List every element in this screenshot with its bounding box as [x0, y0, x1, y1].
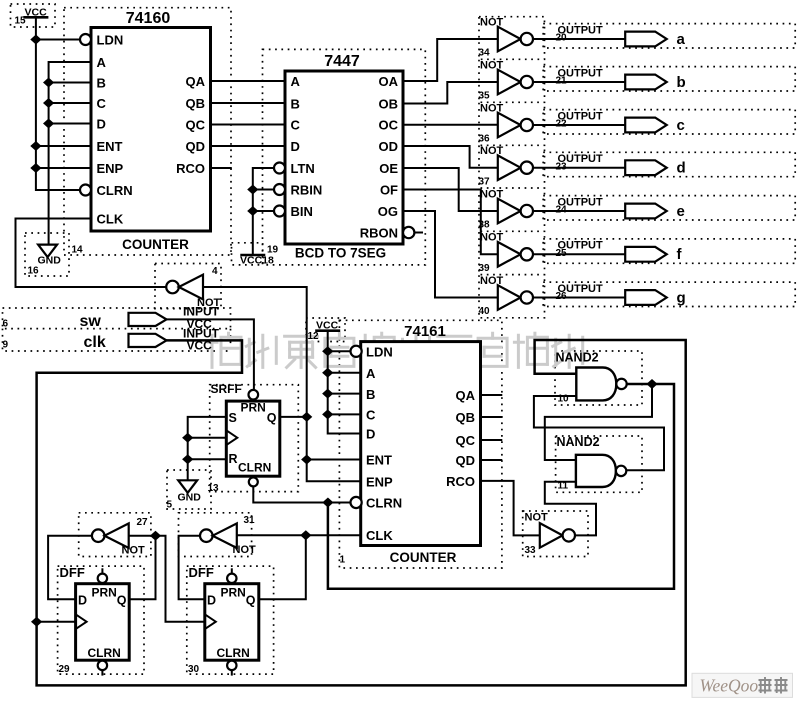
svg-text:NOT: NOT	[480, 188, 504, 200]
junction GND5 rail / clock	[182, 433, 193, 443]
junction VCC12 / C	[322, 409, 333, 419]
svg-text:10: 10	[558, 394, 570, 405]
svg-text:ENT: ENT	[366, 453, 392, 468]
wire VCC18 rail (LTN/RBIN/BIN)	[253, 168, 274, 255]
svg-text:12: 12	[308, 331, 320, 342]
junction VCC18 rail / BIN	[247, 206, 258, 216]
svg-text:A: A	[366, 366, 376, 381]
wire NOT35 output to port b	[533, 81, 625, 83]
wire NOT31 input to CLK 74161	[236, 534, 363, 536]
svg-text:QB: QB	[186, 96, 206, 111]
wire OD 7447 to NOT37	[403, 146, 498, 168]
svg-text:6: 6	[3, 319, 9, 330]
svg-text:VCC: VCC	[316, 319, 339, 331]
wire RCO 74161 to NOT33 input	[481, 481, 540, 536]
wire NAND11 output feedback to NAND10 input B	[534, 396, 664, 470]
svg-text:40: 40	[479, 306, 491, 317]
svg-text:26: 26	[556, 291, 568, 302]
junction GND5 rail / R	[182, 454, 193, 464]
svg-text:COUNTER: COUNTER	[390, 550, 457, 565]
input port clk (9)	[3, 327, 220, 353]
svg-text:D: D	[207, 594, 216, 608]
svg-text:SRFF: SRFF	[211, 382, 242, 396]
wire GND5 rail to SRFF R	[188, 458, 227, 460]
svg-text:S: S	[229, 411, 237, 425]
wire NOT38 output to port e	[533, 210, 625, 212]
junction VCC12 / B	[322, 389, 333, 399]
power VCC 15	[15, 6, 49, 26]
svg-text:39: 39	[479, 263, 491, 274]
inverter NOT 35	[479, 59, 534, 101]
svg-text:DFF: DFF	[60, 565, 85, 580]
svg-text:CLK: CLK	[97, 212, 124, 227]
wire VCC12 rail to D 74161	[328, 331, 361, 434]
svg-text:g: g	[677, 289, 686, 306]
svg-text:RCO: RCO	[176, 161, 205, 176]
svg-text:21: 21	[556, 76, 568, 87]
dotted box around DFF 29	[58, 566, 144, 674]
bubble CLRN 74160	[80, 185, 91, 196]
dotted box around inverter NOT 31	[179, 513, 252, 557]
svg-text:CLK: CLK	[366, 528, 393, 543]
flip-flop DFF 29	[59, 565, 130, 675]
svg-text:R: R	[229, 452, 238, 466]
dotted box around inverter NOT 39	[479, 232, 545, 275]
wire NOT39 output to port f	[533, 253, 625, 255]
wire QD 74161 stub	[481, 459, 503, 461]
wire QA 74161 stub	[481, 394, 503, 396]
dotted box around decoder 7447	[263, 49, 426, 265]
wire NOT27 output to DFF29 D	[48, 536, 92, 600]
svg-text:PRN: PRN	[221, 586, 246, 600]
svg-text:OE: OE	[379, 161, 398, 176]
wire rail to RBIN 7447	[253, 189, 274, 191]
svg-text:NOT: NOT	[480, 16, 504, 28]
stub DFF30 CLRN	[231, 670, 233, 676]
svg-text:VCC: VCC	[187, 339, 213, 353]
svg-text:LDN: LDN	[97, 33, 124, 48]
svg-text:QC: QC	[456, 433, 476, 448]
wire VCC15 to LDN 74160	[36, 39, 80, 41]
junction CLK row / DFF30 Q	[300, 530, 311, 540]
wire VCC15 rail to LDN/ENT/ENP/CLRN of 74160	[36, 17, 80, 190]
svg-text:C: C	[97, 96, 107, 111]
svg-text:A: A	[97, 55, 107, 70]
svg-text:CLRN: CLRN	[217, 646, 250, 660]
power VCC 12	[308, 319, 341, 342]
stub DFF30 PRN	[231, 568, 233, 574]
svg-text:B: B	[366, 387, 375, 402]
svg-text:LTN: LTN	[291, 161, 315, 176]
svg-text:27: 27	[137, 517, 149, 528]
wire NOT4 net to ENT 74161	[307, 459, 363, 461]
ground GND 16	[28, 245, 62, 277]
bubble RBIN 7447	[274, 184, 285, 195]
dotted box around output row f	[543, 239, 795, 263]
svg-text:OG: OG	[378, 204, 398, 219]
svg-text:7447: 7447	[324, 53, 360, 70]
wire OF 7447 to NOT39	[403, 190, 498, 255]
svg-text:14: 14	[72, 245, 84, 256]
junction NOT4 net / SRFF Q	[301, 412, 312, 422]
wire clk input big loop to NAND10 input A	[37, 340, 686, 685]
output port a (20)	[556, 24, 686, 47]
svg-text:BCD TO 7SEG: BCD TO 7SEG	[295, 246, 386, 261]
inverter NOT 33	[525, 512, 576, 557]
dotted box around output row a	[543, 24, 795, 48]
dotted box around NAND2 11	[556, 436, 642, 492]
wire VCC15 to ENT 74160	[36, 145, 91, 147]
wire SRFF CLRN to 74161 CLRN	[253, 486, 350, 502]
inverter NOT 36	[479, 102, 534, 144]
watermark WeeQoo logo	[692, 673, 793, 697]
svg-text:ENP: ENP	[366, 475, 393, 490]
svg-text:Q: Q	[117, 594, 127, 608]
dotted box around VCC 12	[306, 318, 345, 342]
bubble CLRN DFF30	[227, 661, 236, 670]
svg-text:24: 24	[556, 205, 568, 216]
svg-text:QA: QA	[456, 388, 476, 403]
svg-text:CLRN: CLRN	[366, 496, 402, 511]
output port g (26)	[556, 283, 686, 306]
junction at ABCD rail / D	[43, 119, 54, 129]
wire rail to BIN 7447	[253, 210, 274, 212]
svg-text:NOT: NOT	[480, 59, 504, 71]
counter 74160	[91, 10, 211, 252]
wire RBON 7447 stub	[414, 232, 423, 234]
bubble CLRN SRFF	[249, 477, 258, 486]
svg-text:OC: OC	[379, 118, 399, 133]
dotted box around inverter NOT 37	[479, 145, 545, 188]
output port b (21)	[556, 67, 686, 90]
junction clk loop / DFF29 clock	[31, 617, 42, 627]
svg-text:GND: GND	[178, 492, 202, 504]
svg-text:34: 34	[479, 48, 491, 59]
svg-text:B: B	[291, 97, 300, 112]
junction at VCC line / ENT	[30, 141, 41, 151]
svg-text:clk: clk	[84, 334, 106, 351]
svg-text:LDN: LDN	[366, 345, 393, 360]
wire OC 7447 to NOT36	[403, 124, 498, 126]
output port e (24)	[556, 196, 685, 219]
svg-text:CLRN: CLRN	[88, 646, 121, 660]
svg-text:NOT: NOT	[480, 102, 504, 114]
bubble PRN DFF29	[98, 574, 107, 583]
svg-text:NOT: NOT	[233, 544, 257, 556]
dotted box around output row b	[543, 67, 795, 91]
svg-text:CLRN: CLRN	[97, 183, 133, 198]
bubble LDN 74161	[351, 346, 362, 357]
wire VCC12 to C 74161	[328, 413, 361, 415]
junction at VCC line / ENP	[30, 163, 41, 173]
output port f (25)	[556, 240, 683, 263]
wire A 74160 to GND16 rail	[49, 62, 91, 245]
NAND2 gate 10	[556, 351, 627, 405]
svg-text:13: 13	[208, 483, 220, 494]
wire RCO 74160 stub	[211, 167, 232, 169]
svg-text:NOT: NOT	[525, 512, 549, 524]
junction NAND10 output	[646, 379, 657, 389]
dotted box around NAND2 10	[555, 351, 642, 405]
dotted box around inverter NOT 38	[479, 189, 545, 232]
svg-text:C: C	[366, 408, 376, 423]
svg-text:15: 15	[15, 16, 27, 27]
svg-text:5: 5	[167, 500, 173, 511]
dotted box around inverter NOT 35	[479, 60, 545, 103]
svg-text:DFF: DFF	[189, 565, 214, 580]
svg-text:QD: QD	[456, 453, 476, 468]
svg-text:QC: QC	[186, 118, 206, 133]
svg-text:37: 37	[479, 176, 491, 187]
wire clk loop to DFF29 clock	[37, 621, 76, 623]
inverter NOT 37	[479, 145, 534, 187]
dotted box around GND 5	[167, 470, 211, 509]
dotted box around SRFF	[210, 385, 299, 492]
wire NOT40 output to port g	[533, 297, 625, 299]
svg-text:NOT: NOT	[480, 145, 504, 157]
svg-text:e: e	[677, 203, 685, 220]
bubble CLRN DFF29	[98, 661, 107, 670]
svg-text:QA: QA	[186, 74, 206, 89]
svg-text:19: 19	[267, 245, 279, 256]
svg-text:ENP: ENP	[97, 161, 124, 176]
bubble BIN 7447	[274, 206, 285, 217]
label 1 (74161 box)	[340, 555, 346, 566]
svg-text:B: B	[97, 76, 106, 91]
ground GND 5	[167, 480, 202, 510]
wire DFF30 Q up to CLK row	[259, 535, 306, 599]
inverter NOT 34	[479, 16, 534, 58]
power VCC 18 (inverted)	[240, 255, 274, 267]
inverter NOT 4 (facing left)	[166, 266, 220, 309]
svg-text:GND: GND	[38, 255, 62, 267]
wire VCC15 to ENP 74160	[36, 167, 91, 169]
svg-text:QD: QD	[186, 139, 206, 154]
label 14 (74160 box)	[72, 245, 84, 256]
svg-text:1: 1	[340, 555, 346, 566]
svg-text:QB: QB	[456, 410, 476, 425]
svg-text:VCC: VCC	[25, 6, 48, 18]
decoder 7447 BCD to 7SEG	[285, 53, 403, 261]
svg-text:9: 9	[3, 340, 9, 351]
wire GND5 rail to SRFF clock	[188, 437, 227, 439]
svg-text:33: 33	[525, 545, 537, 556]
svg-text:OD: OD	[379, 139, 399, 154]
junction VCC12 / A	[322, 368, 333, 378]
svg-text:COUNTER: COUNTER	[122, 237, 189, 252]
bubble RBON 7447	[403, 227, 414, 238]
svg-text:74160: 74160	[126, 10, 171, 27]
junction VCC18 rail / RBIN	[247, 185, 258, 195]
stub DFF29 PRN	[101, 568, 103, 574]
svg-text:D: D	[97, 117, 106, 132]
wire NOT33 output to NAND11 input B	[545, 482, 596, 536]
wire NAND10 output to CLRN net	[328, 384, 674, 589]
wire VCC12 to A 74161	[328, 372, 361, 374]
svg-text:Q: Q	[246, 594, 256, 608]
dotted box around inverter NOT 36	[479, 103, 545, 146]
wire VCC12 to B 74161	[328, 393, 361, 395]
dotted box around output row e	[543, 196, 795, 220]
svg-text:OF: OF	[380, 183, 398, 198]
svg-text:WeeQoo: WeeQoo	[700, 676, 759, 696]
wire SRFF Q to NOT4 net	[280, 416, 307, 418]
svg-text:36: 36	[479, 134, 491, 145]
input port sw (6)	[3, 305, 220, 332]
svg-text:D: D	[366, 427, 375, 442]
output port c (22)	[556, 110, 685, 133]
svg-text:23: 23	[556, 161, 568, 172]
wire rail to B 74160	[49, 82, 91, 84]
dotted box around GND 16	[25, 233, 69, 276]
inverter NOT 27 (facing left)	[92, 517, 148, 557]
dotted box around VCC 18	[232, 243, 263, 265]
svg-text:11: 11	[558, 481, 569, 492]
wire QA 74160 to A 7447	[211, 80, 286, 82]
svg-text:OA: OA	[379, 74, 399, 89]
wire QB 74160 to B 7447	[211, 102, 286, 104]
dotted box around inverter NOT 34	[479, 17, 545, 60]
svg-text:16: 16	[28, 266, 40, 277]
wire NAND10 output feedback to NAND11 input A	[545, 384, 652, 460]
svg-text:30: 30	[188, 664, 200, 675]
counter 74161	[361, 323, 481, 565]
svg-text:25: 25	[556, 248, 568, 259]
wire OB 7447 to NOT35	[403, 82, 498, 104]
svg-text:PRN: PRN	[241, 401, 266, 415]
watermark text (grey CJK company name)	[208, 333, 583, 367]
wire SRFF S to GND5 rail	[188, 417, 227, 480]
junction at ABCD rail / B	[43, 78, 54, 88]
svg-text:sw: sw	[80, 313, 102, 330]
junction NOT4 net / ENT	[301, 455, 312, 465]
wire OE 7447 to NOT38	[403, 168, 498, 211]
svg-text:Q: Q	[267, 411, 277, 425]
svg-text:29: 29	[59, 664, 71, 675]
svg-text:38: 38	[479, 220, 491, 231]
dotted box around DFF 30	[187, 566, 274, 674]
bubble PRN DFF30	[227, 574, 236, 583]
svg-text:RBIN: RBIN	[291, 183, 323, 198]
label 19 (7447 box)	[267, 245, 279, 256]
svg-text:b: b	[677, 74, 686, 91]
svg-text:RCO: RCO	[446, 474, 475, 489]
dotted box around output row d	[543, 152, 795, 176]
bubble LTN 7447	[274, 163, 285, 174]
wire NOT36 output to port c	[533, 124, 625, 126]
svg-text:A: A	[291, 74, 301, 89]
dotted box around output row c	[543, 110, 795, 134]
dotted box around inverter NOT 4	[155, 264, 221, 309]
svg-text:VCC18: VCC18	[240, 255, 274, 267]
bubble LDN 74160	[80, 34, 91, 45]
dotted box around inverter NOT 27	[79, 513, 151, 557]
label 13 (SRFF box)	[208, 483, 220, 494]
wire NOT34 output to port a	[533, 38, 625, 40]
inverter NOT 31 (facing left)	[200, 515, 256, 556]
bubble CLRN 74161	[351, 497, 362, 508]
wire sw input to SRFF PRN	[166, 319, 254, 390]
wire NOT27 input to DFF30 clock	[128, 536, 205, 622]
svg-text:NAND2: NAND2	[557, 435, 600, 449]
bubble PRN SRFF	[249, 390, 259, 400]
wire rail to D 74160	[49, 123, 91, 125]
junction NOT27 input / DFF29 Q	[150, 531, 161, 541]
dotted box around output row g	[543, 282, 795, 306]
svg-text:74161: 74161	[404, 323, 446, 340]
svg-text:ENT: ENT	[97, 139, 123, 154]
svg-text:CLRN: CLRN	[238, 461, 271, 475]
svg-text:a: a	[677, 31, 686, 48]
dotted box around inverter NOT 33	[523, 511, 588, 557]
svg-text:d: d	[677, 160, 686, 177]
svg-text:35: 35	[479, 91, 491, 102]
flip-flop SRFF	[211, 382, 280, 476]
svg-text:NOT: NOT	[480, 232, 504, 244]
svg-text:31: 31	[244, 515, 256, 526]
svg-text:20: 20	[556, 33, 568, 44]
wire QC 74160 to C 7447	[211, 124, 286, 126]
junction at ABCD rail / C	[43, 98, 54, 108]
wire NOT4 output to CLK 74160	[16, 219, 167, 288]
inverter NOT 38	[479, 188, 534, 230]
svg-text:BIN: BIN	[291, 204, 313, 219]
svg-text:NAND2: NAND2	[556, 351, 599, 365]
svg-text:4: 4	[212, 266, 218, 277]
wire QC 74161 stub	[481, 439, 503, 441]
inverter NOT 39	[479, 232, 534, 274]
svg-text:22: 22	[556, 119, 568, 130]
wire rail to C 74160	[49, 102, 91, 104]
svg-text:NOT: NOT	[122, 545, 146, 557]
output port d (23)	[556, 153, 686, 176]
dotted box around inverter NOT 40	[479, 275, 545, 318]
dotted box around counter 74160	[64, 8, 231, 255]
dotted box around VCC 15	[11, 4, 56, 27]
wire NOT4 input net to ENP 74161	[204, 287, 363, 481]
wire NOT31 output to DFF30 D	[179, 536, 205, 600]
wire OA 7447 to NOT34	[403, 39, 498, 81]
dotted box around input clk row	[3, 329, 231, 351]
svg-text:D: D	[78, 594, 87, 608]
flip-flop DFF 30	[188, 565, 259, 675]
junction at VCC line / LDN	[30, 35, 41, 45]
NAND2 gate 11	[557, 435, 627, 492]
wire DFF29 Q up to NOT27 input	[129, 536, 155, 600]
junction VCC12 / LDN	[322, 346, 333, 356]
inverter NOT 40	[479, 275, 534, 317]
wire OG 7447 to NOT40	[403, 211, 498, 298]
wire VCC12 to LDN 74161	[328, 350, 351, 352]
dotted box around input sw row	[3, 308, 231, 329]
svg-text:c: c	[677, 117, 685, 134]
wire QB 74161 stub	[481, 416, 503, 418]
svg-text:D: D	[291, 139, 300, 154]
svg-text:OB: OB	[379, 97, 399, 112]
svg-text:NOT: NOT	[480, 275, 504, 287]
svg-text:PRN: PRN	[92, 586, 117, 600]
svg-text:RBON: RBON	[360, 226, 398, 241]
stub DFF29 CLRN	[101, 670, 103, 676]
wire QD 74160 to D 7447	[211, 145, 286, 147]
dotted box around counter 74161	[339, 320, 502, 568]
wire NOT37 output to port d	[533, 167, 625, 169]
svg-text:C: C	[291, 118, 301, 133]
junction CLRN net	[322, 498, 333, 508]
